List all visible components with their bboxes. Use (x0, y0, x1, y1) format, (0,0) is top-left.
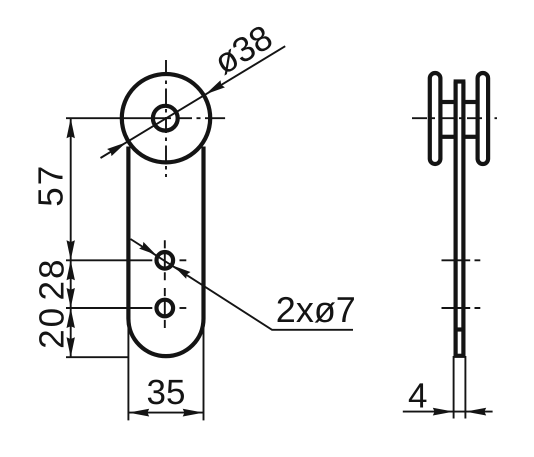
svg-text:35: 35 (147, 373, 186, 412)
left dimension chain: extension line at lower hole (66, 307, 152, 309)
front view: vertical centerline of roller (165, 60, 167, 177)
dimension ø38: arrowhead at upper-right circle edge (206, 80, 225, 94)
svg-text:4: 4 (408, 377, 427, 416)
leader 2xø7: diagonal line through upper hole with shoulder (131, 239, 354, 330)
side view: horizontal centerline (412, 117, 497, 119)
side view: hub top rung right (463, 100, 477, 104)
front view: bracket plate outline (128, 147, 203, 357)
left dimension chain: arrows at y=308 (67, 288, 75, 308)
dimension 35: right arrowhead (183, 409, 204, 417)
front view: upper hole right centerline dash (180, 259, 187, 261)
svg-text:20: 20 (33, 306, 72, 349)
dimension 35: left arrowhead (128, 409, 149, 417)
left dimension chain: vertical dimension line (70, 118, 72, 357)
front view: lower hole ø7 (157, 300, 174, 317)
leader 2xø7: arrowhead pointing down-right at hole edge (139, 242, 156, 255)
left dimension chain: extension line at upper hole (66, 259, 152, 261)
side view: left roller capsule (430, 73, 441, 164)
front view: horizontal centerline of roller (solid extension part) (66, 117, 171, 119)
dimension 4: right arrowhead pointing left (465, 408, 486, 416)
front view: roller bore circle (153, 106, 178, 131)
side view: plate bottom edge (454, 354, 466, 358)
side view: right roller capsule (478, 73, 489, 164)
front view: lower hole right centerline dash (180, 307, 187, 309)
front view: roller outer circle ø38 (122, 74, 210, 162)
dimension 4: right extension line (464, 356, 466, 419)
dimension 4: left extension line (453, 356, 455, 419)
side view: plate top cap (454, 79, 466, 83)
side view: upper hole centerline dashes (442, 259, 481, 261)
dimension ø38: diagonal dimension line through roller (101, 46, 286, 158)
dimension 4: dimension line (403, 411, 493, 413)
front view: upper hole ø7 (157, 252, 174, 269)
side view: plate right edge (461, 82, 465, 357)
dimension 35: right extension line (203, 322, 205, 420)
left dimension chain: arrow down at y=357.2 (67, 337, 75, 357)
dimension 4: left arrowhead pointing right (433, 408, 454, 416)
dimension 35: dimension line (128, 412, 203, 414)
left dimension chain: arrow up at y=118.2 (67, 118, 75, 138)
leader 2xø7: arrowhead pointing up-left at hole edge (174, 266, 191, 279)
svg-text:57: 57 (32, 164, 71, 207)
dimension ø38: arrowhead at lower-left circle edge (107, 142, 126, 156)
dimension 35: left extension line (127, 322, 129, 420)
front view: upper hole vertical centerline (164, 240, 166, 280)
side view: hub top rung left (440, 100, 455, 104)
svg-text:2xø7: 2xø7 (276, 289, 356, 330)
left dimension chain: extension line at plate bottom (66, 356, 128, 358)
svg-text:28: 28 (33, 258, 72, 301)
left dimension chain: arrows at y=260.3 (67, 240, 75, 260)
side view: hub bottom rung left (440, 135, 455, 139)
front view: horizontal centerline of roller (dashed right part) (178, 117, 226, 119)
front view: lower hole vertical centerline (164, 288, 166, 328)
side view: lower hole centerline dashes (442, 307, 481, 309)
side view: plate inner rung (456, 327, 464, 331)
side view: hub bottom rung right (463, 135, 477, 139)
side view: plate left edge (454, 82, 458, 357)
